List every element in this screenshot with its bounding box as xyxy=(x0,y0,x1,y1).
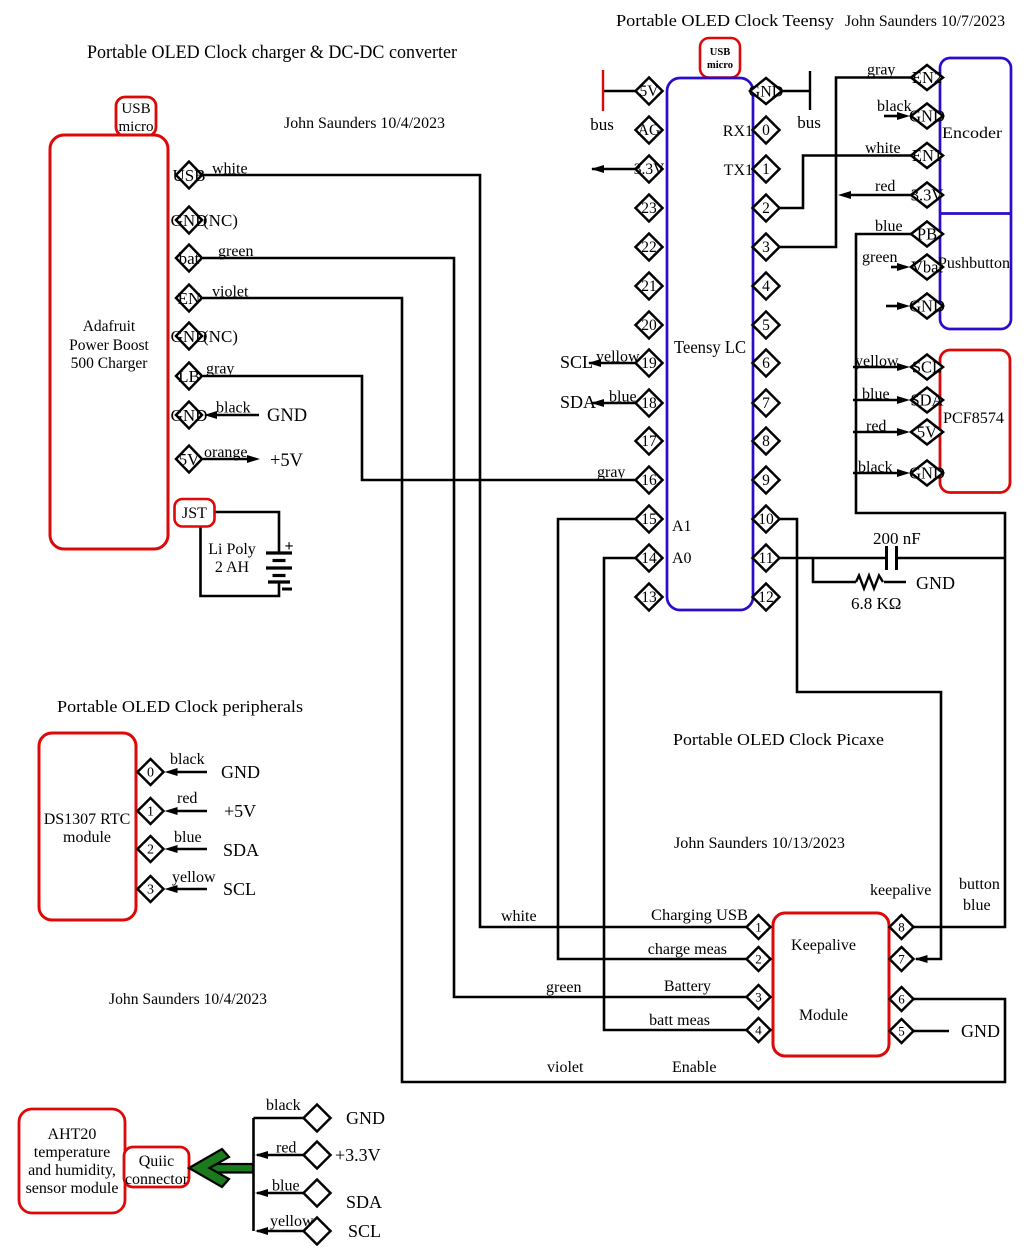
connector: USB micro (charger) xyxy=(116,97,156,136)
svg-text:22: 22 xyxy=(641,239,657,256)
svg-text:yellow: yellow xyxy=(172,869,216,886)
svg-text:micro: micro xyxy=(707,60,733,71)
Teensy left pin 20 xyxy=(636,312,663,339)
wire arrow: Teensy pin 19 SCL pointing left (yellow) xyxy=(589,362,636,365)
svg-text:PCF8574: PCF8574 xyxy=(943,410,1004,427)
svg-text:button: button xyxy=(959,876,1000,893)
svg-text:black: black xyxy=(877,98,912,115)
svg-text:John Saunders 10/7/2023: John Saunders 10/7/2023 xyxy=(845,13,1005,30)
PCF8574 pin SDA xyxy=(911,388,943,413)
svg-text:0: 0 xyxy=(762,122,770,139)
svg-text:GND: GND xyxy=(267,406,307,426)
Teensy left pin 22 xyxy=(636,234,663,261)
AHT20 connector pin xyxy=(304,1180,331,1207)
svg-text:blue: blue xyxy=(609,389,637,406)
svg-text:sensor module: sensor module xyxy=(26,1180,119,1197)
module: Keepalive Module box xyxy=(773,913,889,1056)
wire arrow into PCF8574 5V pin (red) xyxy=(853,431,900,434)
capacitor C1 200 nF plates xyxy=(885,546,888,570)
svg-text:SCL: SCL xyxy=(560,352,593,372)
svg-text:8: 8 xyxy=(762,433,770,450)
arrowhead: into PCF SDA xyxy=(897,396,910,404)
wire: Keepalive pin 5 to GND xyxy=(914,1030,950,1033)
svg-text:8: 8 xyxy=(898,920,905,935)
svg-text:15: 15 xyxy=(641,511,657,528)
connector: Quiic connector box xyxy=(124,1147,189,1187)
arrowhead: into Encoder GND xyxy=(897,112,910,120)
svg-text:batt meas: batt meas xyxy=(649,1012,710,1029)
svg-text:violet: violet xyxy=(212,284,249,301)
svg-text:gray: gray xyxy=(597,464,625,481)
charger pin LB xyxy=(176,363,202,390)
svg-text:5: 5 xyxy=(762,317,770,334)
Teensy left pin 15 xyxy=(636,506,663,533)
arrowhead: AHT20 yellow row xyxy=(255,1227,268,1235)
svg-text:red: red xyxy=(276,1140,296,1157)
wire: Teensy pin 15 A1 to Keepalive pin 2 (charge meas) xyxy=(558,519,747,959)
connector JST xyxy=(175,499,215,527)
svg-text:Portable OLED Clock charger &: Portable OLED Clock charger & DC-DC conv… xyxy=(87,42,458,63)
arrowhead: Encoder 3.3V out xyxy=(838,191,851,199)
svg-text:13: 13 xyxy=(641,589,657,606)
Teensy right pin 12 xyxy=(753,584,780,611)
svg-text:charge meas: charge meas xyxy=(648,941,727,958)
svg-text:blue: blue xyxy=(272,1178,300,1195)
arrowhead: orange +5V out xyxy=(247,455,260,463)
svg-text:USB: USB xyxy=(710,47,730,58)
svg-text:AG: AG xyxy=(638,122,660,139)
svg-text:blue: blue xyxy=(963,897,991,914)
arrowhead: into Keepalive pin 7 xyxy=(915,955,928,963)
IC U3: PCF8574 box xyxy=(940,350,1010,493)
Teensy left pin 3.3V xyxy=(636,156,663,183)
charger pin bat xyxy=(176,245,202,272)
Teensy right pin GND xyxy=(750,78,782,104)
svg-text:RX1: RX1 xyxy=(723,123,753,140)
wire arrow: Teensy pin 18 SDA pointing left (blue) xyxy=(592,402,636,405)
PCF8574 pin 5V xyxy=(911,420,943,445)
svg-text:3: 3 xyxy=(147,883,154,898)
svg-text:SDA: SDA xyxy=(223,840,259,860)
wire: Teensy pin 11 to 200nF capacitor left plate xyxy=(780,557,887,560)
AHT20 connector pin xyxy=(304,1105,331,1132)
Teensy right pin 7 xyxy=(753,390,780,417)
wire green: charger bat pin to Keepalive pin 3 (Battery) xyxy=(203,258,747,997)
svg-text:23: 23 xyxy=(641,200,657,217)
svg-text:Portable OLED Clock Picaxe: Portable OLED Clock Picaxe xyxy=(673,730,884,749)
Teensy left pin 19 xyxy=(636,350,663,377)
svg-text:4: 4 xyxy=(755,1023,762,1038)
svg-text:1: 1 xyxy=(755,920,762,935)
svg-text:2: 2 xyxy=(762,200,770,217)
svg-text:+3.3V: +3.3V xyxy=(335,1145,381,1165)
svg-text:2 AH: 2 AH xyxy=(215,559,250,576)
arrowhead: AHT20 red row xyxy=(255,1151,268,1159)
Encoder/Pushbutton pin EN1 xyxy=(911,143,943,168)
right bus bar xyxy=(809,71,811,110)
PCF8574 pin GND xyxy=(911,461,943,486)
svg-text:GND: GND xyxy=(909,107,945,126)
svg-text:18: 18 xyxy=(641,395,657,412)
wire: resistor to GND label xyxy=(884,581,906,584)
svg-text:green: green xyxy=(546,979,582,996)
wire gray: Teensy pin 3 to Encoder EN2 xyxy=(780,78,912,248)
Keepalive right pin 7 xyxy=(890,947,914,971)
svg-text:JST: JST xyxy=(182,505,207,522)
svg-text:Pushbutton: Pushbutton xyxy=(938,255,1010,272)
arrowhead: into PCF 5V xyxy=(897,428,910,436)
svg-text:+: + xyxy=(284,538,293,555)
svg-text:+5V: +5V xyxy=(224,801,256,821)
svg-text:DS1307 RTC: DS1307 RTC xyxy=(44,811,131,828)
svg-text:SDA: SDA xyxy=(346,1192,382,1212)
svg-text:blue: blue xyxy=(862,386,890,403)
wire: junction to 6.8K resistor xyxy=(813,558,856,582)
svg-text:bat: bat xyxy=(179,249,200,268)
svg-text:1: 1 xyxy=(147,805,154,820)
arrowhead: Teensy 3.3V xyxy=(591,165,604,173)
svg-text:200 nF: 200 nF xyxy=(873,529,921,548)
svg-text:micro: micro xyxy=(119,119,154,135)
svg-text:21: 21 xyxy=(641,278,657,295)
svg-text:green: green xyxy=(862,249,898,266)
Teensy left pin 21 xyxy=(636,273,663,300)
wire arrow from Encoder 3.3V pin (red, pointing left) xyxy=(849,194,911,197)
svg-text:USB: USB xyxy=(121,101,150,117)
svg-text:and humidity,: and humidity, xyxy=(28,1162,116,1179)
svg-text:yellow: yellow xyxy=(270,1213,314,1230)
svg-text:white: white xyxy=(865,140,901,157)
IC U4: DS1307 RTC module box xyxy=(39,733,136,920)
Teensy right pin 0 xyxy=(753,117,780,144)
arrowhead: SDA blue xyxy=(591,399,604,407)
svg-text:5V: 5V xyxy=(640,83,660,100)
svg-text:bus: bus xyxy=(797,113,821,132)
battery circuit loop from JST xyxy=(215,512,280,553)
Teensy right pin 4 xyxy=(753,273,780,300)
svg-text:SCL: SCL xyxy=(912,358,942,377)
charger pin GND (NC) xyxy=(176,207,202,234)
wire arrow into DS1307 pin 3 (yellow, SCL) xyxy=(176,888,207,891)
PCF8574 pin SCL xyxy=(911,355,943,380)
green arrow into Quiic connector xyxy=(205,1164,253,1173)
battery BT1: Li Poly 2 AH cell plates xyxy=(266,551,292,554)
svg-text:7: 7 xyxy=(898,952,905,967)
charger pin EN xyxy=(176,285,202,312)
svg-text:green: green xyxy=(218,243,254,260)
left bus bar (red) xyxy=(602,70,604,111)
svg-text:AHT20: AHT20 xyxy=(48,1126,97,1143)
wire: AHT20 GND row xyxy=(254,1117,304,1120)
svg-text:white: white xyxy=(212,161,248,178)
wire arrow into DS1307 pin 0 (black, GND) xyxy=(176,771,207,774)
svg-text:Battery: Battery xyxy=(664,978,711,995)
wire gray: charger LB pin to Teensy pin 16 xyxy=(203,376,636,480)
svg-text:7: 7 xyxy=(762,395,770,412)
svg-text:(NC): (NC) xyxy=(203,211,238,230)
svg-text:+5V: +5V xyxy=(270,451,304,471)
svg-text:10: 10 xyxy=(758,511,774,528)
svg-text:GND: GND xyxy=(221,762,260,782)
svg-text:17: 17 xyxy=(641,433,657,450)
svg-text:3: 3 xyxy=(755,990,762,1005)
Keepalive right pin 6 xyxy=(890,987,914,1011)
svg-text:0: 0 xyxy=(147,766,154,781)
wire violet: charger EN pin along bottom (Enable) to Keepalive pin 6 xyxy=(203,298,1005,1082)
svg-text:Enable: Enable xyxy=(672,1059,716,1076)
Keepalive right pin 5 xyxy=(890,1019,914,1043)
Encoder/Pushbutton pin Vbat xyxy=(911,255,943,280)
arrowhead: into DS1307 pin 1 xyxy=(165,807,178,815)
arrowhead: SCL yellow xyxy=(588,359,601,367)
arrowhead: into Vbat xyxy=(897,263,910,271)
svg-text:orange: orange xyxy=(204,444,248,461)
svg-text:2: 2 xyxy=(755,952,762,967)
arrowhead: into charger GND xyxy=(204,411,217,419)
svg-text:11: 11 xyxy=(759,550,774,567)
wire arrow: AHT20 +3.3V row (red) xyxy=(257,1154,304,1157)
arrowhead: into Pushbutton GND xyxy=(897,302,910,310)
svg-text:3: 3 xyxy=(762,239,770,256)
svg-text:14: 14 xyxy=(641,550,657,567)
svg-text:9: 9 xyxy=(762,472,770,489)
Teensy left pin 13 xyxy=(636,584,663,611)
divider between Encoder and Pushbutton xyxy=(940,212,1011,215)
Teensy left pin AG xyxy=(636,117,663,144)
svg-text:A1: A1 xyxy=(672,518,692,535)
svg-text:Quiic: Quiic xyxy=(139,1153,175,1170)
wire arrow into DS1307 pin 2 (blue, SDA) xyxy=(176,848,207,851)
svg-text:red: red xyxy=(177,790,197,807)
AHT20 Qwiic vertical wire xyxy=(252,1118,255,1231)
wire black arrow into charger GND pin xyxy=(214,414,259,417)
wire: Teensy pin 5V to left bus xyxy=(603,90,636,93)
wire arrow into Pushbutton Vbat pin (green) xyxy=(891,266,900,269)
svg-text:red: red xyxy=(875,178,895,195)
svg-text:1: 1 xyxy=(762,161,770,178)
arrowhead: AHT20 blue row xyxy=(255,1189,268,1197)
wire arrow: AHT20 SDA row (blue) xyxy=(257,1192,304,1195)
svg-text:black: black xyxy=(266,1097,301,1114)
svg-text:4: 4 xyxy=(762,278,770,295)
svg-text:A0: A0 xyxy=(672,550,692,567)
IC U2: Teensy LC box xyxy=(667,78,753,610)
DS1307 pin 2 xyxy=(138,836,164,862)
svg-text:yellow: yellow xyxy=(855,353,899,370)
svg-text:bus: bus xyxy=(590,115,614,134)
Keepalive left pin 3 xyxy=(747,985,771,1009)
svg-text:3.3V: 3.3V xyxy=(911,186,944,205)
svg-text:Keepalive: Keepalive xyxy=(791,937,856,954)
svg-text:500 Charger: 500 Charger xyxy=(71,355,149,372)
svg-text:6: 6 xyxy=(762,355,770,372)
Teensy right pin 10 xyxy=(753,506,780,533)
Teensy left pin 5V xyxy=(636,78,663,105)
wire arrow into PCF8574 SCL pin (yellow) xyxy=(853,366,900,369)
svg-text:GND: GND xyxy=(961,1021,1000,1041)
svg-text:6: 6 xyxy=(898,992,905,1007)
wire white: Teensy pin 2 to Encoder EN1 xyxy=(780,156,912,209)
Encoder/Pushbutton pin 3.3V xyxy=(911,183,943,208)
svg-text:blue: blue xyxy=(875,218,903,235)
svg-text:Teensy LC: Teensy LC xyxy=(674,337,746,357)
svg-text:blue: blue xyxy=(174,829,202,846)
wire: Teensy pin 10 to Keepalive pin 7 (arrow) xyxy=(780,519,942,959)
svg-text:3.3V: 3.3V xyxy=(634,161,665,178)
wire arrow into Encoder GND pin (black) xyxy=(884,115,900,118)
svg-text:Li Poly: Li Poly xyxy=(208,541,256,558)
charger pin GND 2 (NC) xyxy=(176,323,202,350)
svg-text:gray: gray xyxy=(206,361,234,378)
svg-text:Power Boost: Power Boost xyxy=(69,337,149,354)
AHT20 connector pin xyxy=(304,1142,331,1169)
svg-text:Portable OLED Clock peripheral: Portable OLED Clock peripherals xyxy=(57,697,303,716)
Encoder/Pushbutton pin GND xyxy=(911,294,943,319)
svg-text:5: 5 xyxy=(898,1024,905,1039)
Teensy left pin 23 xyxy=(636,195,663,222)
arrowhead: into DS1307 pin 3 xyxy=(165,885,178,893)
wire arrow into PCF8574 SDA pin (blue) xyxy=(853,399,900,402)
svg-text:gray: gray xyxy=(867,62,895,79)
svg-text:6.8 KΩ: 6.8 KΩ xyxy=(851,594,901,613)
Teensy right pin 8 xyxy=(753,428,780,455)
wire arrow into Pushbutton GND pin xyxy=(886,305,900,308)
svg-text:20: 20 xyxy=(641,317,657,334)
svg-text:SCL: SCL xyxy=(223,879,256,899)
svg-text:black: black xyxy=(170,751,205,768)
svg-text:John Saunders 10/13/2023: John Saunders 10/13/2023 xyxy=(674,835,845,852)
wire arrow into DS1307 pin 1 (red, +5V) xyxy=(176,810,207,813)
IC U1: Adafruit Power Boost 500 Charger box xyxy=(50,135,168,549)
Teensy left pin 17 xyxy=(636,428,663,455)
DS1307 pin 0 xyxy=(138,759,164,785)
wire orange arrow from charger 5V pin xyxy=(203,458,248,461)
svg-text:white: white xyxy=(501,908,537,925)
module: Encoder / Pushbutton box xyxy=(940,58,1011,329)
Encoder/Pushbutton pin GND xyxy=(911,104,943,129)
svg-text:SCL: SCL xyxy=(348,1221,381,1241)
svg-text:GND: GND xyxy=(171,406,208,425)
wire arrow into PCF8574 GND pin (black) xyxy=(853,472,900,475)
Teensy left pin 14 xyxy=(636,545,663,572)
wire white: charger USB pin to Keepalive pin 1 (Charging USB) xyxy=(203,175,747,927)
svg-text:yellow: yellow xyxy=(596,349,640,366)
Encoder/Pushbutton pin EN2 xyxy=(911,65,943,90)
svg-text:Module: Module xyxy=(799,1007,848,1024)
svg-text:GND: GND xyxy=(909,297,945,316)
Keepalive left pin 2 xyxy=(747,947,771,971)
svg-text:EN: EN xyxy=(178,289,201,308)
svg-text:John Saunders 10/4/2023: John Saunders 10/4/2023 xyxy=(109,991,267,1008)
svg-text:LB: LB xyxy=(178,367,200,386)
svg-text:GND: GND xyxy=(171,211,208,230)
wire: 200nF right plate to button-blue vertical xyxy=(897,557,1005,560)
svg-text:GND: GND xyxy=(346,1108,385,1128)
DS1307 pin 1 xyxy=(138,798,164,824)
arrowhead: into PCF GND xyxy=(897,469,910,477)
svg-text:violet: violet xyxy=(547,1059,584,1076)
arrowhead: into PCF SCL xyxy=(897,363,910,371)
svg-text:EN1: EN1 xyxy=(912,146,942,165)
arrowhead: into DS1307 pin 2 xyxy=(165,845,178,853)
resistor R1 6.8 Kohm zigzag xyxy=(856,576,883,589)
svg-text:black: black xyxy=(858,459,893,476)
Teensy left pin 18 xyxy=(636,390,663,417)
svg-text:5V: 5V xyxy=(179,450,201,469)
svg-text:black: black xyxy=(216,400,251,417)
wire arrow: Teensy 3.3V pin pointing left xyxy=(592,168,636,171)
svg-text:Charging USB: Charging USB xyxy=(651,907,748,924)
svg-text:red: red xyxy=(866,418,886,435)
svg-text:EN2: EN2 xyxy=(912,68,942,87)
svg-text:(NC): (NC) xyxy=(203,327,238,346)
wire arrow: AHT20 SCL row (yellow) xyxy=(257,1230,304,1233)
svg-text:GND: GND xyxy=(171,327,208,346)
Teensy right pin 1 xyxy=(753,156,780,183)
svg-text:16: 16 xyxy=(641,472,657,489)
svg-text:SDA: SDA xyxy=(910,391,943,410)
arrowhead: into DS1307 pin 0 xyxy=(165,768,178,776)
svg-text:connector: connector xyxy=(125,1171,189,1188)
svg-text:Adafruit: Adafruit xyxy=(83,318,136,335)
charger pin GND 3 xyxy=(176,402,202,429)
svg-text:SDA: SDA xyxy=(560,392,596,412)
wire: Teensy GND pin to right bus xyxy=(780,90,811,93)
svg-text:temperature: temperature xyxy=(34,1144,110,1161)
charger pin 5V xyxy=(176,446,202,473)
module: AHT20 sensor box xyxy=(19,1109,125,1213)
svg-text:GND: GND xyxy=(749,84,784,101)
Teensy right pin 9 xyxy=(753,467,780,494)
DS1307 pin 3 xyxy=(138,876,164,902)
Teensy right pin 2 xyxy=(753,195,780,222)
svg-text:12: 12 xyxy=(758,589,774,606)
Keepalive left pin 1 xyxy=(747,915,771,939)
svg-text:USB: USB xyxy=(172,166,205,185)
svg-text:keepalive: keepalive xyxy=(870,882,931,899)
svg-text:GND: GND xyxy=(909,464,945,483)
connector: USB micro (Teensy) xyxy=(700,38,740,78)
Teensy right pin 3 xyxy=(753,234,780,261)
Teensy right pin 11 xyxy=(753,545,780,572)
Keepalive left pin 4 xyxy=(747,1018,771,1042)
charger pin USB xyxy=(176,162,202,189)
Keepalive right pin 8 xyxy=(890,915,914,939)
svg-text:19: 19 xyxy=(641,355,657,372)
svg-text:2: 2 xyxy=(147,843,154,858)
svg-text:Encoder: Encoder xyxy=(942,125,1003,142)
svg-text:GND: GND xyxy=(916,573,955,593)
Encoder/Pushbutton pin PB xyxy=(911,222,943,247)
Teensy left pin 16 xyxy=(636,467,663,494)
svg-text:Portable OLED Clock Teensy: Portable OLED Clock Teensy xyxy=(616,11,835,30)
Teensy right pin 6 xyxy=(753,350,780,377)
svg-text:5V: 5V xyxy=(917,423,937,442)
wire blue: Pushbutton PB down and to Keepalive pin 8 (keepalive) xyxy=(856,234,1005,927)
svg-text:PB: PB xyxy=(917,225,937,244)
svg-text:module: module xyxy=(63,829,111,846)
svg-text:TX1: TX1 xyxy=(724,162,753,179)
AHT20 connector pin xyxy=(304,1218,331,1245)
battery minus sign xyxy=(282,588,292,591)
Teensy right pin 5 xyxy=(753,312,780,339)
svg-text:John Saunders 10/4/2023: John Saunders 10/4/2023 xyxy=(284,115,445,132)
wire: Teensy pin 14 A0 to Keepalive pin 4 (batt meas) xyxy=(604,558,747,1030)
